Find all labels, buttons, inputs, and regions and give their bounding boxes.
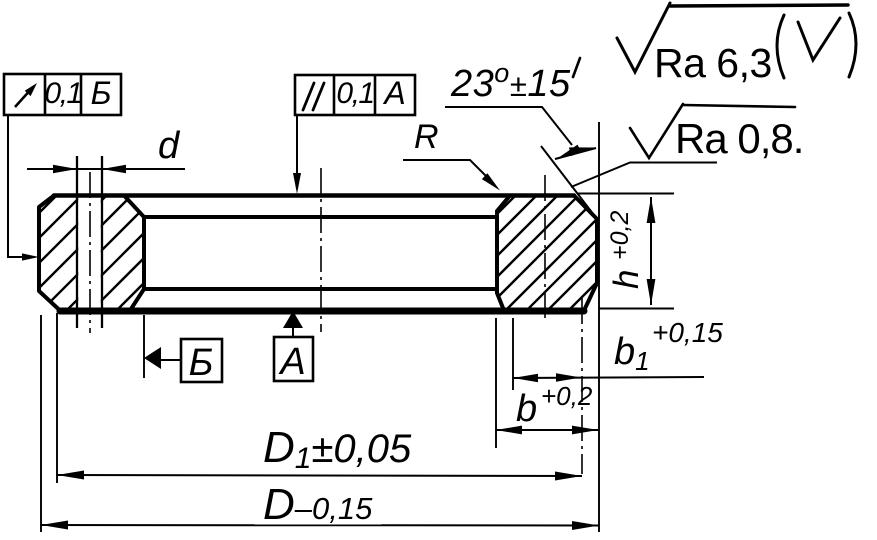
svg-text:h: h bbox=[607, 270, 646, 289]
svg-text:R: R bbox=[414, 118, 439, 156]
svg-text:Б: Б bbox=[189, 342, 214, 384]
svg-text:Б: Б bbox=[91, 75, 112, 111]
svg-text:d: d bbox=[158, 125, 181, 167]
svg-text:+0,15: +0,15 bbox=[652, 317, 723, 348]
svg-text:b: b bbox=[516, 388, 537, 430]
svg-text:0,1: 0,1 bbox=[336, 77, 373, 110]
svg-text:D1±0,05: D1±0,05 bbox=[263, 423, 412, 475]
svg-text:0,1: 0,1 bbox=[44, 77, 81, 110]
svg-text:Ra 6,3: Ra 6,3 bbox=[654, 40, 772, 86]
svg-text:+0,2: +0,2 bbox=[541, 381, 593, 411]
svg-text:Ra 0,8.: Ra 0,8. bbox=[675, 115, 803, 162]
svg-text:А: А bbox=[278, 341, 305, 383]
svg-text:+0,2: +0,2 bbox=[606, 211, 634, 260]
svg-text:А: А bbox=[382, 75, 405, 111]
